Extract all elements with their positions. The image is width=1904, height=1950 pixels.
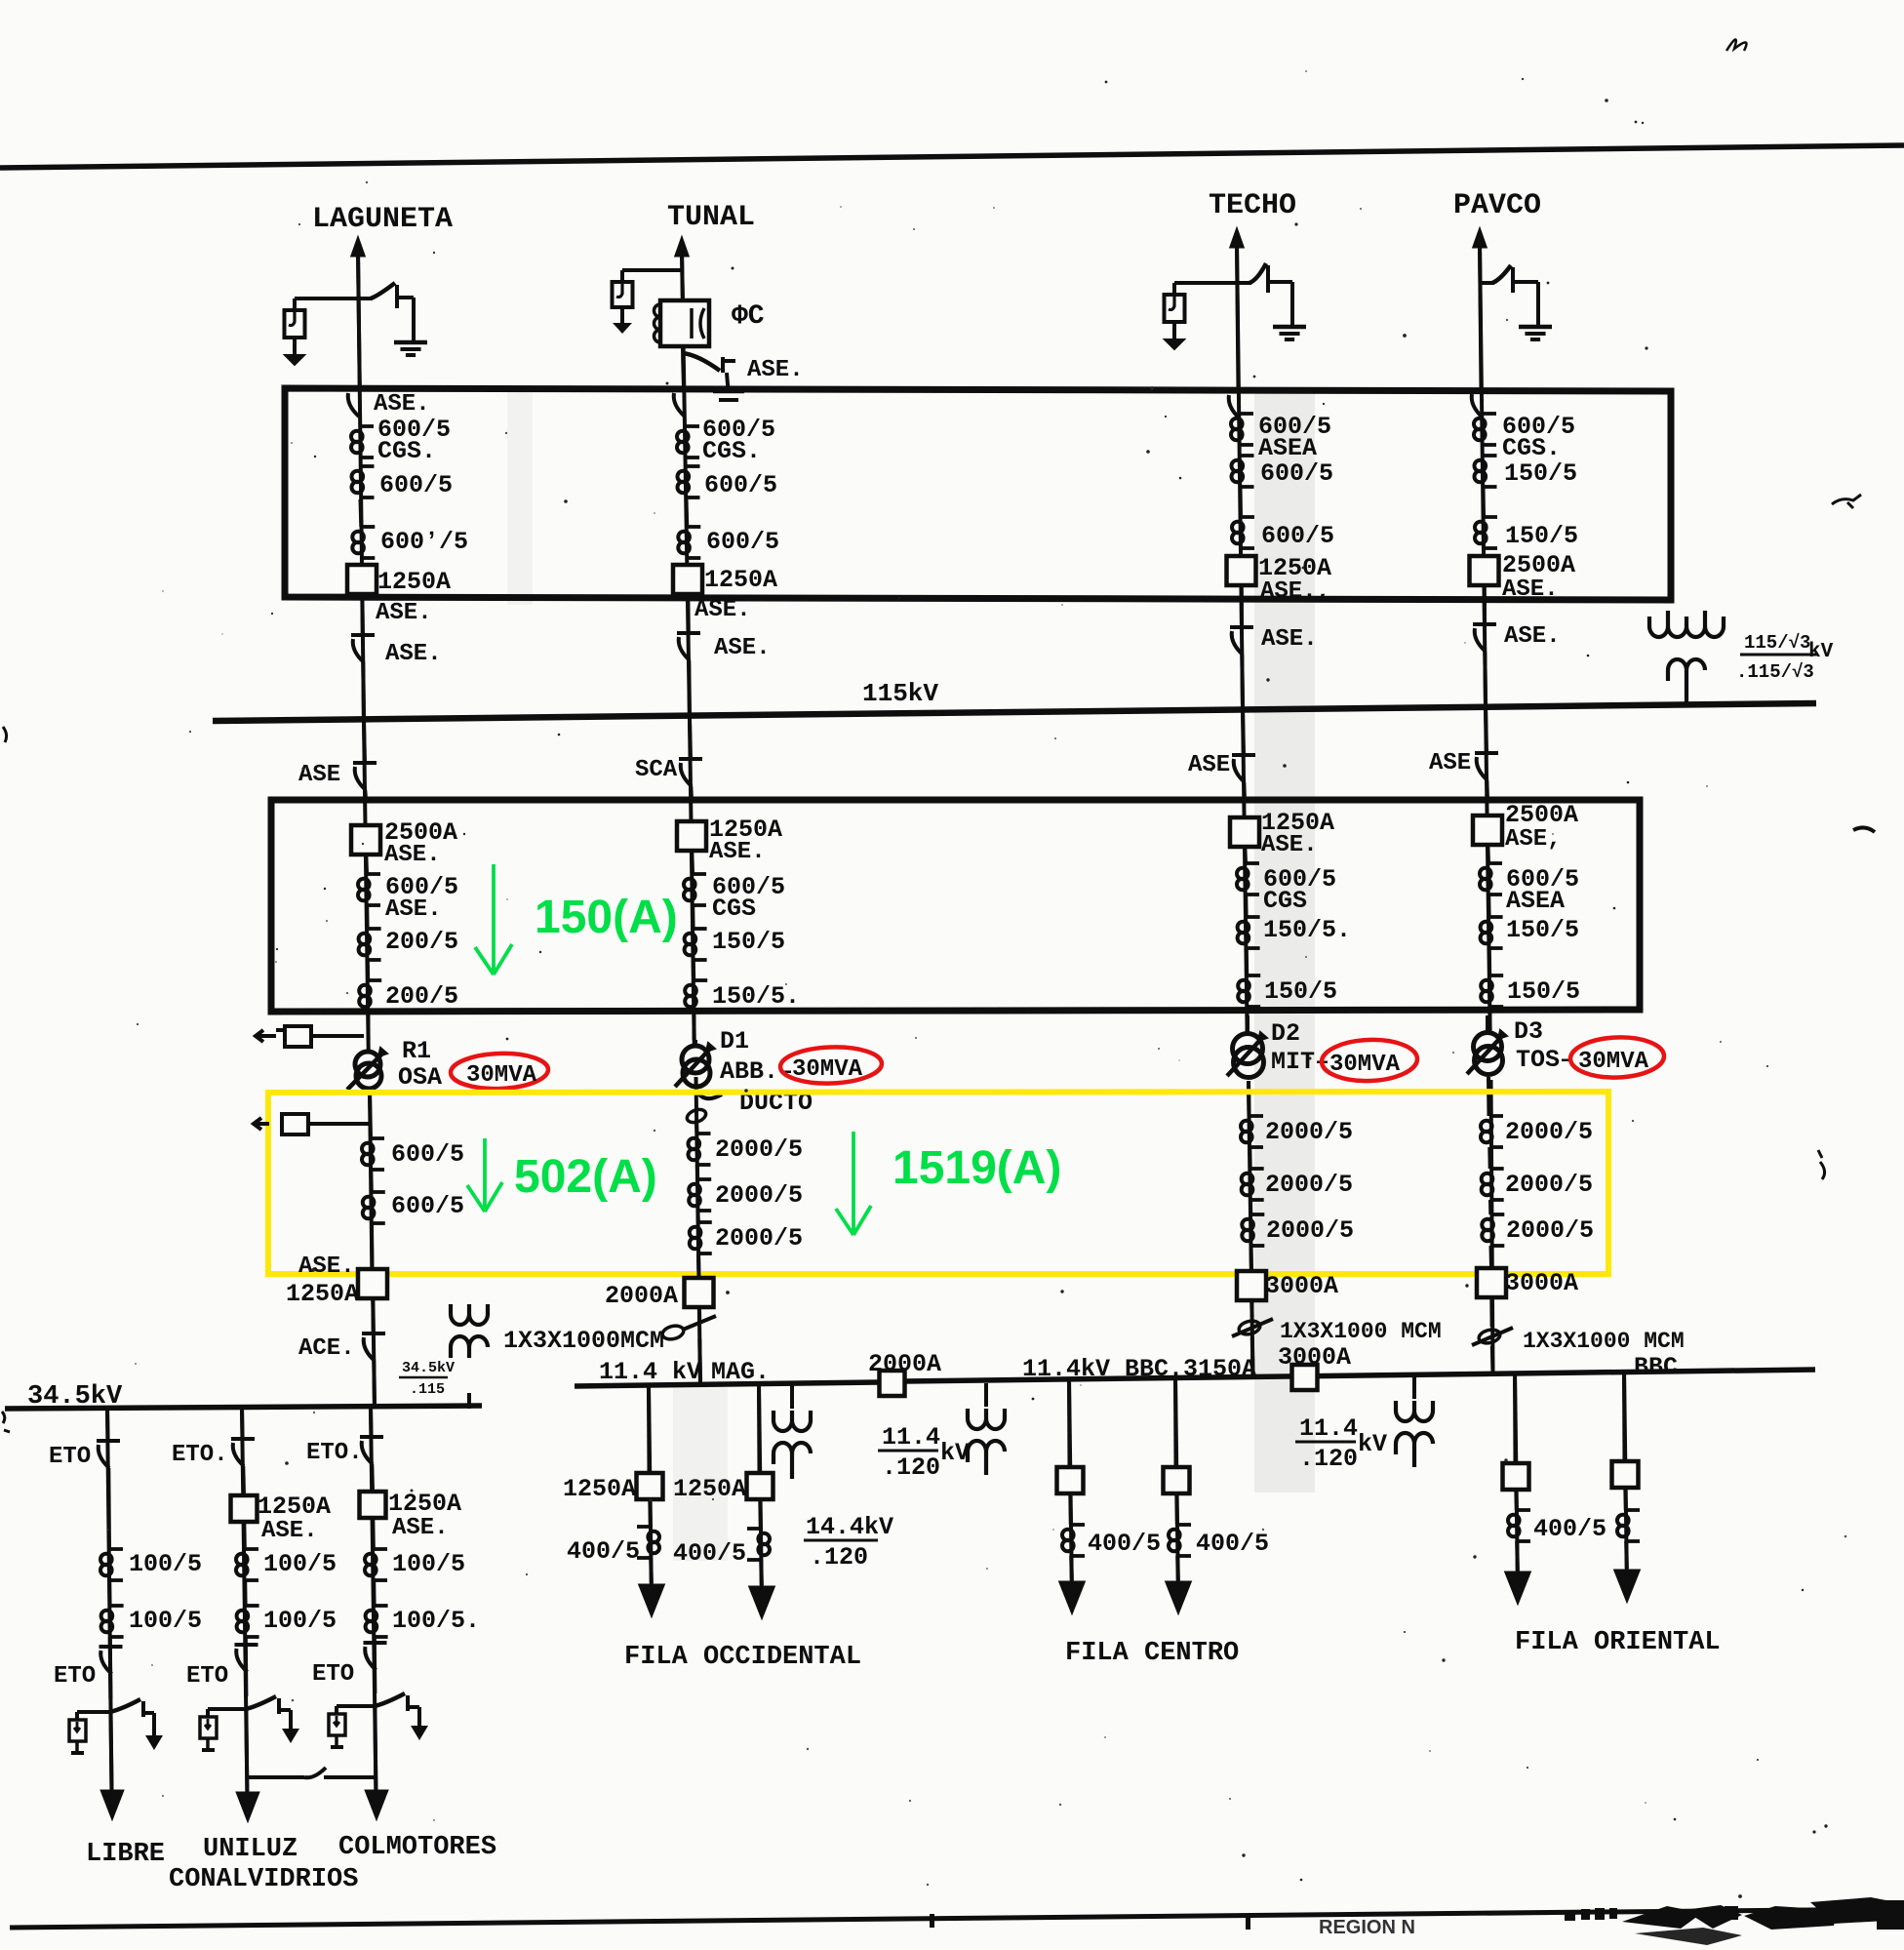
- svg-text:600/5: 600/5: [706, 528, 779, 556]
- svg-text:100/5: 100/5: [392, 1550, 465, 1578]
- CT 100/5. (2) col3: [375, 1604, 388, 1608]
- wire: [1069, 1556, 1074, 1580]
- wire: [105, 1408, 110, 1441]
- svg-text:ETO.: ETO.: [172, 1442, 228, 1468]
- wire: [1488, 1200, 1492, 1214]
- CT 2000/5 (2) PAVCO LV: [1490, 1167, 1504, 1171]
- svg-text:1250A: 1250A: [258, 1492, 331, 1521]
- wire: [1487, 895, 1490, 917]
- disconnect switch ETO. col3: [360, 1435, 383, 1439]
- bus breaker 3000A on BBC bus: [1292, 1365, 1318, 1390]
- svg-text:2000/5: 2000/5: [715, 1224, 803, 1253]
- svg-text:30MVA: 30MVA: [1578, 1049, 1649, 1075]
- potential transformer 14.4kV/.120 at MAG bus: [790, 1385, 794, 1409]
- CT 100/5 col1: [109, 1547, 123, 1551]
- breaker 1250A LAGUNETA LV: [358, 1269, 387, 1298]
- aux tap arrow with box, lower left of R1: [254, 1118, 269, 1130]
- svg-text:1X3X1000 MCM: 1X3X1000 MCM: [1280, 1319, 1442, 1344]
- red ellipse around 30MVA (D3): [1569, 1036, 1664, 1079]
- svg-text:600/5: 600/5: [379, 471, 453, 499]
- wire: [1487, 1007, 1491, 1033]
- svg-text:100/5: 100/5: [263, 1550, 337, 1578]
- svg-text:ASEA: ASEA: [1258, 434, 1317, 462]
- svg-text:CGS: CGS: [1263, 887, 1307, 915]
- wire: [372, 1361, 377, 1409]
- breaker FILA ORIENTAL E: [1503, 1463, 1529, 1490]
- CT 150/5 TECHO HV: [1247, 915, 1260, 919]
- wire: [365, 905, 369, 929]
- disconnect switch, TECHO box1 top: [1227, 389, 1250, 393]
- wire: [1487, 948, 1491, 975]
- wire: [1249, 1300, 1253, 1317]
- wire: [246, 1709, 247, 1793]
- svg-text:BBC.: BBC.: [1634, 1353, 1692, 1381]
- CT 400/5 FILA CENTRO C: [1071, 1523, 1085, 1527]
- yellow rectangle (transformer LV CT zone): [268, 1092, 1608, 1274]
- CT 600/5 (3) TECHO: [1241, 515, 1254, 519]
- svg-text:34.5kV: 34.5kV: [402, 1360, 455, 1376]
- svg-text:100/5: 100/5: [263, 1607, 337, 1635]
- bus 11.4kV BBC: [904, 1370, 1815, 1381]
- svg-text:ASEA: ASEA: [1506, 887, 1565, 915]
- breaker 3000A TECHO LV: [1237, 1271, 1266, 1300]
- svg-text:LIBRE: LIBRE: [86, 1840, 165, 1869]
- svg-text:.120: .120: [882, 1453, 940, 1482]
- svg-text:D3: D3: [1514, 1017, 1543, 1046]
- svg-text:2000/5: 2000/5: [1265, 1171, 1353, 1199]
- CT 400/5 FILA OCC B: [747, 1527, 761, 1531]
- wire: [695, 1211, 699, 1222]
- CT 200/5 (2) LAGUNETA HV: [368, 978, 381, 982]
- earthing switch assembly col3: [337, 1704, 375, 1708]
- svg-text:UNILUZ: UNILUZ: [203, 1835, 297, 1864]
- breaker 1250A ASE TECHO HV: [1230, 817, 1259, 847]
- svg-text:100/5: 100/5: [129, 1550, 202, 1578]
- green arrow annotation 502(A): [467, 1138, 502, 1212]
- svg-text:11.4: 11.4: [1299, 1414, 1358, 1443]
- svg-text:ASE.: ASE.: [714, 635, 771, 661]
- svg-text:502(A): 502(A): [514, 1151, 657, 1203]
- svg-text:600/5: 600/5: [1261, 522, 1334, 550]
- svg-text:R1: R1: [402, 1037, 431, 1065]
- svg-text:2000/5: 2000/5: [1505, 1118, 1593, 1146]
- svg-text:2000/5: 2000/5: [715, 1181, 803, 1210]
- svg-text:ETO: ETO: [49, 1444, 91, 1470]
- wire: [697, 1307, 701, 1319]
- svg-text:2500A: 2500A: [1505, 801, 1578, 829]
- breaker FILA ORIENTAL F: [1612, 1461, 1639, 1488]
- feeder arrow FILA ORIENTAL F: [1614, 1570, 1641, 1603]
- svg-text:100/5: 100/5: [129, 1607, 202, 1635]
- svg-text:LAGUNETA: LAGUNETA: [312, 203, 453, 236]
- svg-text:CONALVIDRIOS: CONALVIDRIOS: [169, 1865, 358, 1894]
- svg-text:ASE.: ASE.: [298, 1254, 355, 1280]
- svg-text:FILA CENTRO: FILA CENTRO: [1065, 1639, 1239, 1668]
- wire: [240, 1408, 245, 1439]
- wire: [1483, 652, 1487, 705]
- bus 11.4kV MAG: [575, 1382, 880, 1386]
- wire: [697, 1339, 702, 1384]
- svg-text:TUNAL: TUNAL: [667, 201, 755, 234]
- CT FILA ORIENTAL F: [1626, 1508, 1640, 1512]
- wire TUNAL spine: [682, 252, 694, 1048]
- wire: [1249, 1246, 1254, 1271]
- wire: [1175, 1556, 1180, 1580]
- svg-text:ASE.: ASE.: [1502, 577, 1559, 603]
- CT 100/5 col3: [374, 1547, 387, 1551]
- svg-text:14.4kV: 14.4kV: [806, 1513, 893, 1541]
- transformer D1 ABB 30MVA: [694, 1040, 697, 1046]
- wire FILA OCC B spine: [759, 1385, 762, 1588]
- CT 400/5 FILA ORIENTAL E: [1517, 1508, 1530, 1512]
- bus tie breaker 2000A: [880, 1371, 905, 1396]
- feeder arrow FILA OCC A: [639, 1584, 665, 1617]
- CT 150/5 (2) PAVCO: [1484, 515, 1497, 519]
- CT 100/5 (2) col2: [246, 1604, 259, 1608]
- svg-text:2000A: 2000A: [868, 1350, 941, 1378]
- svg-text:2000/5: 2000/5: [715, 1135, 803, 1164]
- cable 1X3X1000MCM TUNAL: [661, 1324, 685, 1341]
- wire: [686, 594, 691, 633]
- red ellipse around 30MVA (D1): [779, 1046, 882, 1086]
- svg-text:2000/5: 2000/5: [1265, 1118, 1353, 1146]
- svg-text:30MVA: 30MVA: [1329, 1052, 1401, 1078]
- wire: [1513, 1372, 1518, 1463]
- wire: [371, 1298, 375, 1333]
- transformer R1 OSA 30MVA: [355, 1052, 380, 1077]
- wire: [368, 1092, 373, 1114]
- svg-text:3000A: 3000A: [1265, 1272, 1338, 1300]
- svg-text:600/5: 600/5: [391, 1192, 464, 1220]
- disconnect switch ASE above 115kV bus, LAGUNETA: [351, 633, 375, 637]
- svg-text:600/5: 600/5: [391, 1140, 464, 1169]
- CT 2000/5 (2) TUNAL LV: [697, 1177, 711, 1181]
- svg-text:400/5: 400/5: [1533, 1515, 1606, 1543]
- breaker FILA CENTRO C: [1057, 1467, 1084, 1493]
- wire: [690, 851, 694, 874]
- wire: [691, 905, 694, 929]
- breaker 1250A ASE col2: [231, 1495, 258, 1522]
- wire: [366, 960, 370, 980]
- cable 1X3X1000 MCM TECHO: [1238, 1319, 1261, 1336]
- svg-text:1250A: 1250A: [704, 566, 777, 594]
- wire: [1173, 1377, 1178, 1467]
- svg-text:150/5: 150/5: [712, 928, 785, 956]
- wire: [1490, 1346, 1495, 1372]
- bus 115kV: [213, 703, 1816, 721]
- wire: [681, 346, 685, 359]
- wire: [1622, 1371, 1627, 1461]
- svg-text:600ʼ/5: 600ʼ/5: [380, 528, 468, 556]
- disconnect switch SCA below bus, TUNAL: [690, 719, 691, 759]
- svg-text:REGION N: REGION N: [1319, 1917, 1415, 1938]
- CT 400/5 FILA OCC A: [637, 1525, 651, 1529]
- wire: [685, 499, 690, 527]
- wire LAGUNETA spine lower: [370, 1092, 375, 1409]
- wire: [372, 1580, 376, 1606]
- svg-text:ASE.: ASE.: [1504, 623, 1561, 650]
- svg-text:150/5: 150/5: [1264, 977, 1337, 1006]
- svg-text:FILA OCCIDENTAL: FILA OCCIDENTAL: [624, 1643, 861, 1672]
- CT 600/5 CGS LAGUNETA: [360, 424, 374, 428]
- breaker 1250A ASE TUNAL: [673, 565, 702, 594]
- wire: [1483, 585, 1487, 624]
- wire: [1245, 948, 1249, 975]
- disconnect switch DUCTO on TUNAL LV: [696, 1091, 722, 1098]
- CT 600/5 (2) TUNAL: [687, 464, 700, 468]
- wire TUNAL spine lower: [696, 1077, 701, 1386]
- svg-text:200/5: 200/5: [385, 928, 458, 956]
- CT 600/5 ASEA TECHO: [1240, 412, 1253, 416]
- wire: [692, 960, 695, 980]
- CT 150/5 (2) TECHO HV: [1247, 974, 1260, 977]
- wire: [110, 1712, 111, 1791]
- CT 600/5 (2) LAGUNETA LV: [372, 1190, 385, 1194]
- line trap / coupling capacitor PHI-C TUNAL: [660, 300, 709, 346]
- wire TECHO incoming line with arrow: [1231, 230, 1243, 247]
- wire: [648, 1499, 653, 1527]
- wire: [244, 1637, 249, 1696]
- disconnect switch ASE below bus, PAVCO: [1486, 705, 1487, 753]
- wire: [360, 594, 365, 635]
- breaker 2500A ASE PAVCO: [1470, 556, 1499, 585]
- transformer D3 TOS 30MVA: [1486, 1015, 1489, 1032]
- cable 1X3X1000 MCM PAVCO: [1478, 1328, 1501, 1345]
- CT 150/5 PAVCO HV: [1489, 915, 1503, 919]
- CT 600/5 LAGUNETA LV: [371, 1136, 384, 1140]
- disconnect switch, TUNAL box1 top: [672, 387, 695, 391]
- svg-text:TECHO: TECHO: [1209, 189, 1296, 222]
- svg-text:ASE.,: ASE.,: [1260, 578, 1330, 605]
- potential transformer 115/sqrt3 at 115kV bus: [1649, 611, 1724, 637]
- breaker 1250A ASE TUNAL HV: [677, 821, 706, 851]
- transformer D2 MIT 30MVA: [1246, 1015, 1249, 1034]
- CT 600/5 (2) LAGUNETA: [361, 464, 375, 468]
- wire PAVCO incoming line with arrow: [1474, 230, 1486, 247]
- wire: [366, 1012, 370, 1040]
- wire: [370, 1223, 375, 1269]
- earthing switch assembly col2: [208, 1707, 246, 1711]
- wire: [1482, 487, 1487, 517]
- wire 34.5kV col2 spine: [242, 1408, 247, 1793]
- disconnect switch ETO col1 lower: [99, 1645, 123, 1649]
- svg-text:ETO: ETO: [312, 1661, 354, 1688]
- disconnect switch ASE below bus, LAGUNETA: [364, 721, 365, 763]
- wire LAGUNETA incoming line with arrow: [352, 239, 364, 256]
- svg-text:34.5kV: 34.5kV: [27, 1382, 123, 1412]
- svg-text:600/5: 600/5: [704, 471, 777, 499]
- svg-text:ASE,: ASE,: [1505, 826, 1562, 853]
- svg-text:1250A: 1250A: [673, 1475, 746, 1503]
- CT 100/5 col2: [245, 1547, 258, 1551]
- wire: [371, 1518, 376, 1549]
- disconnect switch ASE to earth, TUNAL: [683, 353, 720, 371]
- wire: [757, 1385, 762, 1473]
- disconnect switch ACE LAGUNETA LV: [362, 1332, 385, 1335]
- wire LAGUNETA spine: [358, 252, 369, 1050]
- CT 2000/5 TUNAL LV: [697, 1132, 711, 1135]
- disconnect switch ETO col1: [97, 1439, 120, 1443]
- wire: [1514, 1490, 1519, 1510]
- CT 600/5 ASE LAGUNETA HV: [367, 872, 380, 876]
- svg-text:ASE.: ASE.: [392, 1515, 449, 1541]
- svg-text:.115: .115: [410, 1381, 445, 1398]
- svg-text:150/5: 150/5: [1505, 522, 1578, 550]
- svg-text:ASE.: ASE.: [384, 842, 441, 868]
- wire TECHO spine: [1237, 244, 1248, 1033]
- svg-text:3000A: 3000A: [1505, 1269, 1578, 1297]
- svg-text:COLMOTORES: COLMOTORES: [338, 1833, 496, 1862]
- CT 2000/5 (3) TUNAL LV: [698, 1220, 712, 1224]
- svg-text:ACE.: ACE.: [298, 1335, 355, 1362]
- svg-text:ETO: ETO: [186, 1663, 228, 1690]
- CT 600/5 (3) LAGUNETA: [361, 525, 375, 529]
- wire: [369, 1170, 374, 1192]
- breaker 2000A TUNAL LV: [685, 1278, 714, 1307]
- wire PAVCO spine lower: [1491, 1080, 1493, 1372]
- svg-text:CGS.: CGS.: [702, 437, 761, 465]
- svg-text:ASE.: ASE.: [376, 600, 432, 626]
- svg-text:1519(A): 1519(A): [892, 1142, 1061, 1194]
- wire: [696, 1254, 701, 1278]
- wire: [370, 1464, 375, 1492]
- CT 600/5 (2) TECHO: [1241, 454, 1254, 458]
- svg-text:115kV: 115kV: [862, 679, 938, 708]
- CT 150/5 (2) PAVCO HV: [1489, 974, 1503, 977]
- svg-text:11.4 kV: 11.4 kV: [599, 1358, 701, 1386]
- surge arrester TUNAL: [622, 268, 682, 272]
- svg-text:2000/5: 2000/5: [1266, 1216, 1354, 1245]
- svg-text:TOS–: TOS–: [1516, 1046, 1574, 1074]
- CT 600/5 ASEA PAVCO HV: [1488, 861, 1502, 865]
- CT 150/5 PAVCO: [1484, 454, 1497, 458]
- svg-text:ASE.: ASE.: [747, 357, 804, 383]
- wire FILA CENTRO C spine: [1069, 1379, 1072, 1583]
- svg-text:ASE: ASE: [298, 762, 340, 788]
- svg-text:.120: .120: [810, 1543, 868, 1572]
- svg-text:D1: D1: [720, 1027, 749, 1055]
- svg-text:150/5: 150/5: [1506, 916, 1579, 944]
- svg-text:30MVA: 30MVA: [792, 1056, 863, 1083]
- green arrow annotation 1519(A): [836, 1132, 871, 1235]
- svg-text:1250A: 1250A: [388, 1490, 461, 1518]
- wire: [1487, 1147, 1491, 1169]
- svg-text:ASE.: ASE.: [1261, 832, 1318, 858]
- aux tap arrow with box, upper left of R1: [256, 1030, 276, 1042]
- potential transformer 11.4/.120 left of BBC bus: [984, 1383, 988, 1407]
- svg-text:ASE.: ASE.: [385, 896, 442, 923]
- wire: [364, 855, 369, 874]
- disconnect switch with earthing, TECHO entrance: [1174, 281, 1236, 285]
- wire: [1249, 1200, 1252, 1214]
- breaker 3000A PAVCO LV: [1477, 1268, 1506, 1297]
- feeder arrow COLMOTORES: [365, 1790, 388, 1820]
- wire: [369, 1408, 374, 1437]
- svg-text:600/5: 600/5: [1260, 459, 1333, 488]
- wire: [1489, 1297, 1493, 1327]
- svg-text:ASE.: ASE.: [374, 391, 430, 418]
- svg-text:400/5: 400/5: [1088, 1530, 1161, 1558]
- wire: [758, 1499, 763, 1529]
- breaker 1250A FILA OCC A: [637, 1473, 663, 1499]
- potential transformer 34.5kV/.115: [451, 1304, 488, 1325]
- svg-text:ETO: ETO: [54, 1663, 96, 1690]
- wire: [692, 1012, 695, 1040]
- wire: [759, 1560, 764, 1585]
- wire FILA OCC A spine: [649, 1386, 652, 1586]
- red ellipse around 30MVA (D2): [1321, 1038, 1417, 1082]
- disconnect switch ETO col3 lower: [364, 1641, 387, 1645]
- svg-text:.115/√3: .115/√3: [1736, 661, 1814, 683]
- svg-text:kV: kV: [1358, 1430, 1387, 1458]
- breaker 1250A ASE TECHO: [1227, 556, 1256, 585]
- wire: [1243, 847, 1248, 863]
- wire FILA CENTRO D spine: [1175, 1377, 1178, 1583]
- svg-text:ASE.: ASE.: [261, 1518, 318, 1544]
- svg-text:100/5.: 100/5.: [392, 1607, 480, 1635]
- svg-text:FILA ORIENTAL: FILA ORIENTAL: [1515, 1628, 1721, 1657]
- disconnect switch with earthing, LAGUNETA entrance: [295, 297, 357, 300]
- wire: [1067, 1379, 1072, 1467]
- svg-text:2000/5: 2000/5: [1505, 1171, 1593, 1199]
- svg-text:CGS: CGS: [712, 895, 756, 923]
- svg-text:150/5.: 150/5.: [712, 982, 800, 1011]
- svg-text:3000A: 3000A: [1278, 1343, 1351, 1372]
- CT 600/5 CGS TUNAL HV: [693, 872, 706, 876]
- svg-text:PAVCO: PAVCO: [1453, 189, 1541, 222]
- wire: [1240, 585, 1244, 627]
- black rectangle box 1 (115kV line CT/breaker zone): [285, 388, 1671, 600]
- CT 2000/5 PAVCO LV: [1489, 1114, 1503, 1118]
- wire: [1245, 1007, 1249, 1033]
- wire: [1239, 487, 1244, 517]
- svg-text:400/5: 400/5: [567, 1537, 640, 1566]
- wire: [1487, 1077, 1491, 1116]
- svg-text:ASE.: ASE.: [385, 641, 442, 667]
- breaker FILA CENTRO D: [1164, 1467, 1190, 1493]
- svg-text:150(A): 150(A): [535, 892, 678, 943]
- wire: [1623, 1488, 1628, 1510]
- disconnect switch ASE, LAGUNETA box1 top: [346, 387, 370, 391]
- wire: [1486, 845, 1490, 863]
- svg-text:1250A: 1250A: [286, 1280, 359, 1308]
- svg-text:kV: kV: [940, 1439, 970, 1467]
- wire 34.5kV col1 spine: [107, 1408, 112, 1791]
- svg-text:30MVA: 30MVA: [466, 1062, 537, 1089]
- CT 2000/5 (2) TECHO LV: [1250, 1167, 1264, 1171]
- CT 200/5 LAGUNETA HV: [368, 927, 381, 931]
- earthing switch assembly col1: [77, 1710, 110, 1714]
- disconnect switch ASE above 115kV bus, PAVCO: [1473, 622, 1496, 626]
- wire: [1068, 1493, 1073, 1525]
- svg-text:OSA: OSA: [398, 1063, 442, 1092]
- disconnect switch ASE below bus, TECHO: [1243, 708, 1244, 755]
- svg-text:ETO.: ETO.: [306, 1440, 363, 1466]
- disconnect switch, PAVCO box1 top: [1470, 388, 1493, 392]
- svg-text:1X3X1000 MCM: 1X3X1000 MCM: [1523, 1329, 1685, 1354]
- tie line between col2 and col3 with switch: [247, 1775, 304, 1779]
- svg-text:SCA: SCA: [635, 757, 678, 783]
- wire: [681, 359, 686, 388]
- wire: [1244, 895, 1248, 917]
- red ellipse around 30MVA (R1): [450, 1052, 548, 1090]
- wire: [1247, 1081, 1251, 1116]
- CT 400/5 FILA CENTRO D: [1177, 1523, 1191, 1527]
- svg-text:ASE: ASE: [1429, 750, 1471, 776]
- svg-text:ASE: ASE: [1188, 752, 1230, 778]
- wire TECHO spine lower: [1249, 1083, 1253, 1377]
- breaker 2500A ASE PAVCO HV: [1473, 816, 1502, 845]
